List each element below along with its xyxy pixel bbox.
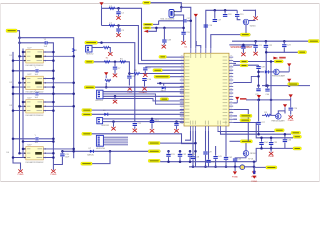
wire [151, 118, 153, 121]
capacitor C36 [283, 140, 287, 142]
junction [151, 118, 154, 121]
wire [101, 8, 103, 25]
crystal Y5 [169, 10, 176, 18]
svg-text:Y: Y [35, 135, 37, 137]
junction [189, 160, 192, 163]
net label GND_A [6, 29, 17, 32]
wire pins right U3 [43, 79, 73, 88]
wire [262, 114, 265, 116]
junction [12, 86, 15, 89]
svg-text:C31: C31 [171, 154, 176, 156]
junction [72, 82, 75, 85]
net label STRING1 [154, 75, 170, 78]
wire pins left U5 [13, 149, 26, 158]
power port VDD [194, 14, 198, 48]
wire [107, 48, 110, 52]
ground GND12 [111, 126, 115, 130]
wire pin right [233, 76, 258, 82]
junction [109, 150, 112, 153]
svg-text:D1: D1 [10, 55, 12, 57]
wire VIN [151, 3, 182, 8]
net label PWM [82, 132, 92, 135]
junction [117, 7, 120, 10]
ground GND19 [289, 115, 293, 119]
wire pins left U3 [13, 79, 26, 88]
wire [39, 70, 54, 72]
power port VD3 [283, 104, 287, 113]
wire [196, 41, 201, 48]
wire [283, 41, 285, 44]
net label VSENSE [240, 33, 250, 36]
transistor Q2 [274, 69, 280, 75]
svg-text:PMEG2010AEH: PMEG2010AEH [271, 120, 285, 123]
svg-text:C40: C40 [266, 94, 271, 96]
net label SDA [82, 113, 92, 116]
junction [117, 24, 120, 27]
resistor R4 [105, 79, 111, 81]
ferrite bead L2 [109, 7, 115, 9]
junction [52, 70, 55, 73]
wire PWM [92, 134, 196, 144]
wire [13, 70, 35, 72]
wire [243, 9, 256, 11]
junction [112, 120, 115, 123]
wire [254, 167, 265, 173]
junction [22, 77, 25, 80]
wire [229, 44, 255, 46]
wire [214, 10, 216, 18]
wire bus A [20, 38, 74, 159]
resistor R8 [134, 72, 140, 74]
wire [183, 35, 185, 41]
wire [163, 83, 165, 85]
capacitor C16 [204, 25, 208, 27]
diode D7 [90, 150, 94, 153]
wire [105, 83, 107, 87]
wire [144, 71, 146, 73]
capacitor C8 [127, 76, 131, 78]
capacitor C33 [188, 154, 192, 156]
svg-text:D6: D6 [103, 110, 105, 112]
svg-text:C38: C38 [167, 40, 172, 42]
junction [189, 150, 192, 153]
net label VBAT [288, 83, 299, 86]
capacitor C35 [269, 143, 273, 145]
no-ERC arrow [273, 57, 285, 60]
ground GND2 [18, 169, 22, 173]
junction [214, 166, 217, 169]
wire [179, 157, 181, 162]
net label OSC2 [143, 27, 151, 29]
capacitor C7 [113, 67, 117, 69]
wire rail3 [189, 166, 254, 168]
power ground PG2 [252, 171, 256, 174]
junction [194, 150, 197, 153]
ground GND1 [51, 169, 55, 173]
wire [157, 82, 184, 84]
pin arrows U3 [24, 78, 46, 88]
svg-text:1nF: 1nF [44, 46, 48, 48]
svg-text:PGND: PGND [232, 177, 238, 179]
wire [265, 41, 267, 44]
wire pins right U2 [43, 52, 73, 61]
no-ERC text [240, 98, 246, 100]
ground GND24 [142, 86, 146, 90]
junction [61, 150, 64, 153]
svg-text:C20: C20 [186, 32, 191, 34]
wire AN3 [160, 161, 256, 163]
junction [52, 140, 55, 143]
svg-text:C42: C42 [228, 157, 233, 159]
wire P4 pins [103, 137, 128, 145]
wire [271, 100, 276, 116]
power port VM1 [252, 176, 256, 179]
capacitor C28 [191, 157, 195, 159]
wire [249, 20, 256, 22]
capacitor C22 [264, 45, 268, 47]
net label AN2 [148, 150, 160, 153]
capacitor Y2 [36, 69, 38, 72]
svg-text:Y: Y [35, 67, 37, 69]
junction [52, 93, 55, 96]
wire [270, 148, 272, 151]
wire [261, 138, 263, 142]
wire [168, 151, 170, 153]
wire [279, 71, 289, 73]
junction [179, 150, 182, 153]
net label VOUT [274, 60, 283, 63]
ground GND4 [116, 33, 120, 37]
junction [284, 133, 287, 136]
capacitor C39 [256, 67, 260, 69]
MCU U1 pin names [181, 55, 232, 122]
junction [22, 140, 25, 143]
ground GND15 [253, 16, 257, 20]
ground GND7 [113, 73, 117, 77]
wire [230, 140, 241, 142]
svg-text:ISOLATOR RX0102: ISOLATOR RX0102 [26, 161, 45, 164]
capacitor C38 [162, 40, 166, 42]
junction [22, 101, 25, 104]
junction [52, 59, 55, 62]
wire [39, 93, 74, 95]
wire [215, 159, 217, 167]
svg-text:C37: C37 [187, 18, 190, 20]
wire RX1 [94, 62, 130, 75]
wire route4 [256, 148, 293, 161]
isolator module U2 [26, 50, 44, 63]
capacitor C40 [265, 89, 269, 91]
wire [245, 143, 247, 151]
capacitor C15 [60, 154, 64, 156]
connector P3 [97, 118, 103, 124]
power ground PG1 [233, 171, 237, 174]
wire [266, 51, 284, 53]
wire [205, 155, 207, 167]
wire [265, 48, 267, 86]
svg-text:C23: C23 [287, 44, 292, 46]
wire [20, 42, 45, 44]
net label VS1 [293, 135, 301, 138]
svg-text:C22: C22 [269, 45, 274, 47]
pin arrows U4 [24, 101, 46, 111]
fuse F1 [73, 48, 75, 52]
net label PTB3 [240, 119, 251, 122]
wire [118, 15, 120, 16]
wire [139, 73, 184, 75]
wire [192, 131, 194, 156]
capacitor C3 [116, 29, 120, 31]
net label VCC5 [308, 40, 319, 43]
wire [234, 162, 236, 167]
capacitor Y4 [36, 137, 38, 140]
svg-text:C14: C14 [179, 123, 184, 125]
net label VM [266, 166, 277, 169]
capacitor C20 [181, 32, 185, 34]
wire SWD2 [103, 95, 184, 97]
wire [114, 62, 116, 67]
wire SCL [92, 109, 184, 111]
junction [175, 120, 178, 123]
svg-text:BAT54C: BAT54C [87, 154, 94, 157]
net label RESET [159, 55, 167, 58]
wire [208, 163, 210, 167]
wire [211, 35, 241, 49]
wire [236, 10, 238, 13]
isolator module U5 [26, 147, 44, 160]
wire [270, 145, 272, 148]
junction [18, 105, 21, 108]
wire OSC1 [153, 21, 159, 25]
wire [258, 100, 260, 122]
junction [270, 147, 273, 150]
wire [224, 10, 226, 13]
wire [233, 115, 237, 117]
wire [13, 138, 35, 140]
net label SCL [82, 109, 92, 112]
junction [179, 160, 182, 163]
wire [269, 71, 273, 73]
wire [233, 102, 237, 104]
wire VBAT rail [262, 85, 310, 87]
capacitor C21 [253, 45, 257, 47]
wire [255, 48, 257, 51]
net label LED1 [81, 162, 92, 165]
wire PGND5 [98, 43, 135, 123]
svg-text:XTAL 16.000MHZ: XTAL 16.000MHZ [160, 17, 175, 20]
sheet border [1, 4, 320, 182]
resistor R5 [265, 114, 271, 116]
wire [195, 131, 197, 167]
capacitor C23 [282, 45, 286, 47]
connector P2 [97, 90, 103, 99]
svg-text:PGND: PGND [251, 181, 257, 183]
svg-text:C15: C15 [65, 154, 70, 156]
capacitor C34 [259, 143, 263, 145]
junction [72, 93, 75, 96]
wire rail2 [246, 99, 291, 101]
junction [265, 51, 268, 54]
wire [185, 131, 191, 140]
ground GND5 [133, 128, 137, 132]
wire SWD3 [103, 94, 184, 104]
wire [284, 143, 286, 149]
wire [258, 86, 260, 88]
junction [266, 84, 269, 87]
junction [270, 137, 273, 140]
net label BKGD [153, 69, 163, 72]
net label PTB2 [240, 114, 252, 117]
wire [237, 17, 240, 20]
svg-text:ISOLATOR RX0102: ISOLATOR RX0102 [26, 114, 45, 117]
junction [18, 55, 21, 58]
net label VDDA [160, 98, 169, 101]
wire STAT1 [218, 130, 275, 133]
junction [72, 150, 75, 153]
junction [12, 70, 15, 73]
MCU U1 pins [180, 57, 233, 122]
ground GND14 [174, 129, 178, 133]
capacitor C13 [150, 121, 154, 123]
junction [192, 166, 195, 169]
wire route3 [233, 123, 293, 138]
wire [151, 123, 153, 128]
diode D5 [162, 86, 166, 89]
wire TX1 [95, 86, 184, 88]
isolator module U4 [26, 100, 44, 113]
junction [167, 150, 170, 153]
svg-text:HDR1X5H: HDR1X5H [96, 148, 105, 150]
svg-text:C35: C35 [274, 142, 279, 144]
capacitor C25 [256, 89, 260, 91]
junction [270, 99, 273, 102]
wire pins right U5 [43, 149, 73, 158]
net label STAT1 [275, 129, 285, 132]
svg-text:C27: C27 [261, 122, 266, 124]
capacitor C41 [213, 157, 217, 159]
wire [255, 41, 257, 44]
junction [257, 84, 260, 87]
junction [12, 93, 15, 96]
junction [283, 40, 286, 43]
connector P1 [86, 46, 92, 52]
net label TX1 [84, 86, 95, 89]
capacitor C2 [116, 12, 120, 14]
junction [18, 152, 21, 155]
junction [270, 60, 273, 63]
svg-text:SI2301: SI2301 [250, 26, 256, 28]
net label PTA1 [240, 64, 248, 67]
svg-text:D2: D2 [10, 82, 12, 84]
LED DL1 [240, 165, 245, 170]
wire [192, 160, 194, 167]
wire [39, 138, 54, 140]
wire [148, 28, 156, 31]
power port VCC1 [99, 2, 103, 8]
junction [257, 133, 260, 136]
transistor Q1 [243, 19, 249, 25]
svg-text:C18: C18 [228, 14, 233, 16]
svg-text:C9: C9 [148, 68, 151, 70]
svg-text:D4: D4 [7, 152, 9, 154]
wire [258, 69, 260, 85]
svg-text:C10: C10 [147, 79, 152, 81]
capacitor C31 [166, 154, 170, 156]
junction [52, 86, 55, 89]
wire [189, 151, 191, 153]
wire pins right U4 [43, 102, 73, 111]
svg-text:C32: C32 [182, 154, 187, 156]
junction [12, 138, 15, 141]
junction [224, 9, 227, 12]
svg-text:D7: D7 [89, 148, 91, 150]
wire INT1 [103, 118, 184, 120]
junction [265, 84, 268, 87]
junction [105, 86, 108, 89]
junction [155, 27, 158, 30]
net label VIN [143, 1, 151, 4]
svg-text:PMEG2010AEH: PMEG2010AEH [272, 75, 286, 78]
junction [12, 156, 15, 159]
transistor Q3 [276, 114, 282, 120]
wire INT2 [103, 121, 184, 123]
junction [52, 138, 55, 141]
svg-text:C39: C39 [261, 66, 266, 68]
svg-text:1nF: 1nF [35, 142, 39, 144]
ground GND9 [143, 73, 147, 77]
svg-text:ISOLATOR RX0102: ISOLATOR RX0102 [26, 64, 45, 67]
svg-text:C41: C41 [218, 156, 223, 158]
wire XTAL1 [176, 7, 191, 48]
wire [114, 70, 116, 73]
wire [163, 28, 165, 39]
wire VCC rail [232, 40, 308, 42]
wire [53, 157, 62, 165]
wire [233, 62, 236, 64]
wire VDD2 [102, 26, 185, 64]
wire pins left U4 [13, 102, 26, 111]
wire [225, 131, 227, 157]
wire [129, 73, 133, 75]
capacitor C24 [241, 46, 245, 48]
wire [114, 96, 116, 99]
junction [12, 59, 15, 62]
pin arrows U5 [24, 148, 46, 158]
wire [234, 167, 236, 171]
svg-text:C3: C3 [121, 30, 124, 32]
wire [246, 25, 251, 35]
wire [189, 157, 191, 162]
svg-text:PGND: PGND [18, 174, 24, 176]
wire [168, 157, 170, 162]
wire [233, 64, 258, 66]
junction [260, 147, 263, 150]
junction [128, 72, 131, 75]
junction [257, 75, 260, 78]
wire [290, 111, 292, 115]
resistor R6 [253, 171, 255, 174]
wire STAT2 [221, 131, 292, 134]
diode D6 [104, 113, 108, 116]
net label OSC1 [143, 23, 153, 25]
capacitor C27 [256, 122, 260, 124]
wire [163, 43, 165, 45]
power port VD1 [257, 95, 261, 100]
wire [118, 32, 120, 33]
capacitor C9 [143, 68, 147, 70]
ferrite bead L4 [103, 46, 109, 48]
wire [118, 26, 120, 29]
